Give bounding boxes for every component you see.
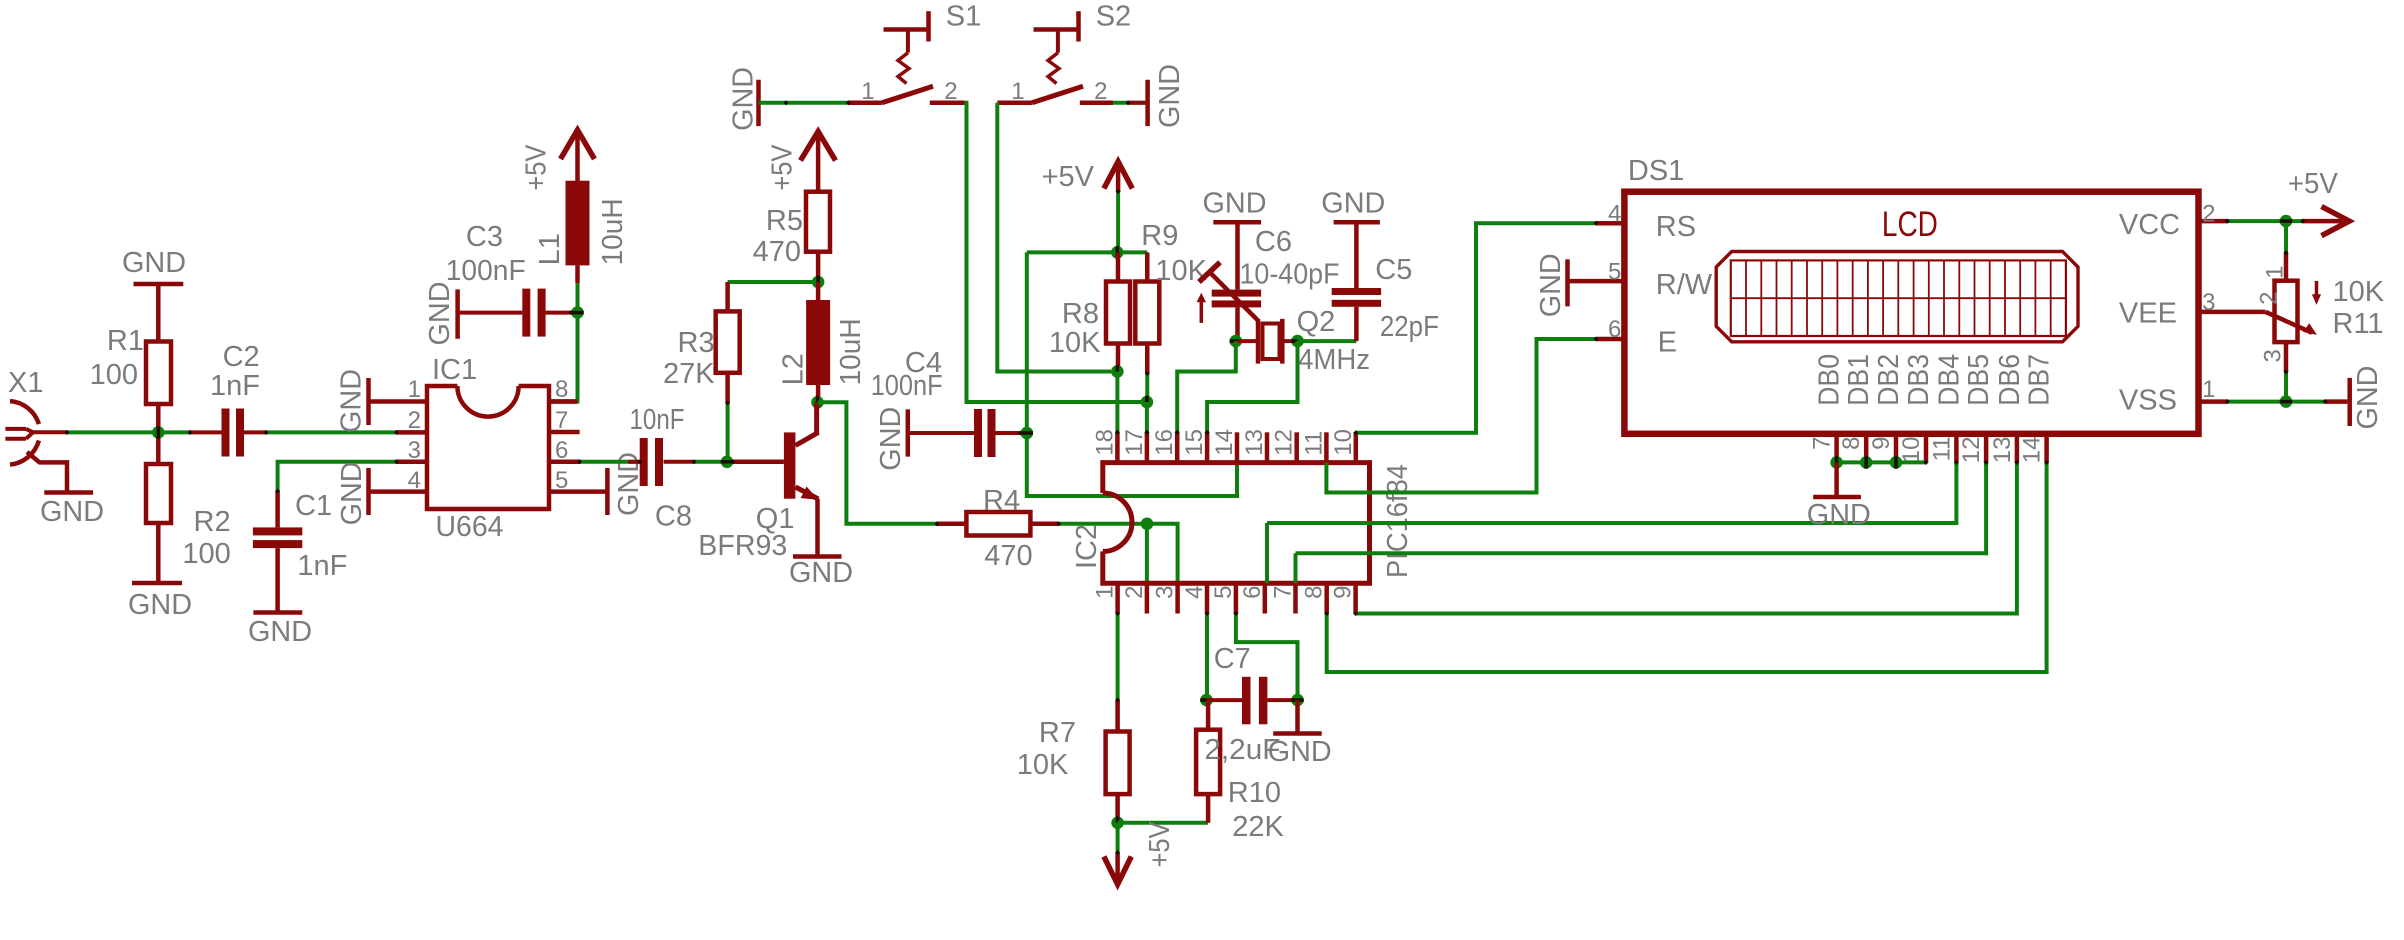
node input junction [152,404,165,464]
node R9 bottom junction [1141,374,1154,409]
node C3 L1 junction [571,306,584,319]
svg-text:GND: GND [1203,188,1267,220]
svg-text:9: 9 [1330,586,1357,599]
svg-text:11: 11 [1300,431,1327,456]
svg-text:4: 4 [1608,200,1621,227]
resistor R2 [146,464,231,581]
svg-text:16: 16 [1151,429,1178,456]
svg-text:100nF: 100nF [446,255,526,287]
wire DB6 net IC2 pin9 to LCD pin13 [1356,462,2017,613]
pin end specks [64,100,2327,855]
node LCD pin9 junction [1890,456,1903,469]
switch S2 [997,1,1131,106]
resistor R3 [663,282,740,403]
svg-text:1: 1 [408,376,421,403]
svg-text:+5V: +5V [520,144,552,191]
svg-text:7: 7 [1809,437,1836,450]
svg-text:GND: GND [1535,253,1567,317]
svg-text:1: 1 [2202,376,2215,403]
svg-text:R4: R4 [983,485,1020,517]
svg-text:R1: R1 [107,325,144,357]
svg-text:8: 8 [555,376,568,403]
IC1 pin 8 [549,376,578,403]
LCD pin 4 RS [1596,200,1696,243]
svg-text:2: 2 [1121,586,1148,599]
svg-text:GND: GND [336,369,368,433]
inductor L1 [534,181,629,283]
svg-text:GND: GND [122,247,186,279]
svg-text:470: 470 [753,236,801,268]
node crystal left junction [1230,335,1243,348]
wire input net X1 to C2 [67,430,190,434]
LCD pin 5 RW [1568,258,1713,301]
svg-text:5: 5 [1608,258,1621,285]
wire S2 pin2 to GND [1113,101,1146,105]
svg-text:C8: C8 [655,501,692,533]
IC PIC16F84 IC2 body [1071,463,1414,584]
svg-text:L1: L1 [534,233,566,265]
svg-text:C6: C6 [1255,226,1292,258]
LCD pin 2 VCC [2119,200,2228,241]
svg-text:6: 6 [1239,586,1266,599]
svg-text:1: 1 [1092,586,1119,599]
resistor R10 [1196,700,1284,843]
capacitor C5 [1332,222,1439,343]
wire +5V to R8 R9 tops [1027,192,1147,253]
svg-text:12: 12 [1271,429,1298,456]
svg-text:DB2: DB2 [1873,354,1905,406]
IC U664 IC1 body [427,354,549,543]
svg-text:GND: GND [789,557,853,589]
supply +5V at L1 [520,130,594,191]
resistor R5 [753,192,830,282]
node C7 right junction [1291,694,1304,707]
svg-text:DB7: DB7 [2024,354,2056,406]
svg-text:R3: R3 [678,327,715,359]
wire OSC2 crystal to IC2 pin15 [1207,341,1297,432]
svg-text:470: 470 [984,540,1032,572]
svg-text:GND: GND [248,616,312,648]
crystal Q2 4MHz [1238,306,1370,376]
wire OSC1 crystal to IC2 pin16 [1177,341,1236,432]
svg-text:22K: 22K [1232,811,1284,843]
svg-text:DS1: DS1 [1628,155,1684,187]
resistor R4 [937,485,1059,572]
capacitor C7 [1204,643,1297,766]
svg-text:2: 2 [2202,200,2215,227]
svg-text:10nF: 10nF [630,404,685,436]
wire IC2 pin5 to C7 right [1236,614,1298,701]
potentiometer R11 [2256,253,2385,372]
svg-text:8: 8 [1301,586,1328,599]
supply +5V at PIC [1042,161,1133,193]
IC1 pin 7 [549,407,580,434]
ground symbol at IC1 pin1 [336,369,369,433]
svg-text:C7: C7 [1214,643,1251,675]
wire S1 pin2 to R9 node [965,103,1141,402]
svg-text:S1: S1 [946,1,981,33]
resistor R9 [1135,220,1207,374]
ground symbol above R1 [122,247,186,284]
node R4 IC2 junction [1141,518,1154,531]
svg-text:10K: 10K [1049,327,1101,359]
svg-text:DB5: DB5 [1963,354,1995,406]
node LCD pin7 junction [1830,456,1843,469]
svg-text:RS: RS [1656,211,1696,243]
svg-text:GND: GND [1321,188,1385,220]
ground symbol below R2 [128,583,192,621]
wire DB4 net IC2 pin6 to LCD pin11 [1267,462,1956,583]
trimmer capacitor C6 [1197,222,1340,341]
svg-text:GND: GND [2352,366,2384,430]
capacitor C2 [190,341,266,457]
svg-text:10-40pF: 10-40pF [1240,258,1340,290]
wire C2 to IC1 pin2 [266,430,427,434]
wire RA2 net inside IC2 to pins 2 3 [1147,524,1178,583]
svg-text:17: 17 [1121,429,1148,456]
supply +5V down at R7 [1104,821,1176,884]
wire Q1 collector to R4 [818,402,938,524]
node C4 junction [1021,427,1034,440]
wire GND to S1 pin1 [759,101,849,105]
node VCC junction [2280,215,2293,228]
svg-text:R9: R9 [1141,220,1178,252]
svg-text:2: 2 [2256,292,2283,305]
svg-text:GND: GND [1268,736,1332,768]
LCD data pin labels DB0-DB7 [1814,354,2056,406]
resistor R1 [90,286,171,404]
display DS1 LCD body [1624,155,2198,434]
ground symbol below C1 [248,613,312,649]
resistor R8 [1049,252,1130,371]
svg-text:U664: U664 [436,511,504,543]
node R5 R3 junction [812,276,825,289]
svg-text:R5: R5 [766,205,803,237]
node crystal right junction [1291,335,1304,348]
svg-text:VSS: VSS [2119,385,2177,417]
node R7 bottom junction [1111,817,1124,830]
ground symbol at LCD RW [1535,253,1568,317]
svg-text:14: 14 [1211,429,1238,456]
svg-text:+5V: +5V [2288,168,2339,200]
ground symbol below C7 [1268,700,1332,768]
svg-text:GND: GND [40,496,104,528]
svg-text:L2: L2 [777,353,809,385]
svg-text:22pF: 22pF [1380,311,1439,343]
svg-text:LCD: LCD [1882,205,1938,244]
wire R4 to IC2 [1059,522,1141,526]
LCD bottom pin stubs 7-14 [1837,434,2047,463]
svg-text:13: 13 [1989,437,2016,464]
LCD pin 6 E [1596,316,1677,358]
svg-text:GND: GND [424,282,456,346]
svg-text:1: 1 [2261,265,2288,278]
ground symbol at C4 [875,407,908,471]
ground symbol at X1 [40,493,104,529]
capacitor C1 [253,490,347,611]
IC1 pin 5 [549,467,607,494]
svg-text:4: 4 [408,467,421,494]
svg-text:BFR93: BFR93 [698,530,787,562]
svg-text:DB3: DB3 [1903,354,1935,406]
svg-text:9: 9 [1868,437,1895,450]
wire LCD pins 7 8 9 10 to GND [1837,460,1926,464]
LCD pin 1 VSS [2119,376,2228,417]
wire IC1 pin3 to C1 [278,462,427,491]
svg-text:3: 3 [2202,289,2215,316]
svg-text:10K: 10K [1017,749,1069,781]
wire R7 node to R10 bottom [1118,821,1209,825]
wire R9 node to IC2 pin17 [1145,402,1149,432]
wire R8 node to IC2 pin18 [1115,372,1119,433]
svg-text:2: 2 [944,78,957,105]
svg-text:100: 100 [90,359,138,391]
svg-text:100nF: 100nF [871,370,943,402]
svg-text:8: 8 [1838,437,1865,450]
wire C8 to Q1 base [694,460,733,464]
node VSS junction [2280,395,2293,408]
svg-text:13: 13 [1241,429,1268,456]
node L2 collector junction [811,396,824,409]
svg-text:DB1: DB1 [1843,354,1875,406]
svg-text:Q2: Q2 [1297,306,1336,338]
svg-text:R/W: R/W [1656,269,1713,301]
svg-text:18: 18 [1091,429,1118,456]
IC2 top pin stubs [1117,432,1355,462]
svg-text:+5V: +5V [766,144,798,191]
wire R11 to VSS net [2227,372,2325,402]
svg-text:1: 1 [1011,78,1024,105]
svg-text:DB0: DB0 [1814,354,1846,406]
inductor L2 [777,282,867,402]
LCD bottom pin numbers [1809,437,2046,464]
svg-text:E: E [1658,327,1677,359]
IC1 pin 6 [549,437,580,464]
svg-text:GND: GND [128,589,192,621]
svg-text:X1: X1 [8,367,43,399]
wire IC2 pin1 to R7 [1116,614,1120,701]
transistor Q1 BFR93 [698,402,818,562]
svg-text:10: 10 [1330,429,1357,456]
wire crystal right to C5 [1298,339,1357,343]
resistor R7 [1017,700,1130,823]
svg-text:4: 4 [1181,586,1208,599]
capacitor C4 [871,347,1020,457]
svg-text:3: 3 [2259,349,2286,362]
ground symbol left of S1 [728,67,760,131]
svg-text:VCC: VCC [2119,209,2180,241]
svg-text:4MHz: 4MHz [1298,344,1370,376]
svg-text:DB6: DB6 [1994,354,2026,406]
IC2 bottom pin numbers [1092,586,1357,599]
svg-text:100: 100 [182,538,230,570]
svg-text:10uH: 10uH [835,318,867,385]
svg-text:2: 2 [1094,78,1107,105]
svg-text:IC2: IC2 [1071,524,1103,569]
ground symbol above C6 [1203,188,1267,223]
svg-text:1nF: 1nF [210,370,260,402]
wire +5V rail to C4 and VDD pin14 [1027,252,1237,496]
svg-text:R8: R8 [1062,298,1099,330]
wire E net IC2 pin11 to LCD pin6 [1326,339,1596,493]
ground symbol at IC1 pin4 [336,461,369,525]
wire DB5 net IC2 pin7 to LCD pin12 [1296,462,1987,583]
IC1 pin 4 [369,467,428,494]
wire IC2 pin4 to C7 R10 [1205,614,1209,701]
svg-text:11: 11 [1928,437,1955,462]
svg-text:R7: R7 [1039,717,1076,749]
ground symbol at C3 [424,282,458,346]
capacitor C8 [580,404,694,533]
svg-text:3: 3 [1152,586,1179,599]
svg-text:14: 14 [2019,437,2046,464]
svg-text:+5V: +5V [1144,821,1176,868]
svg-text:5: 5 [555,467,568,494]
svg-text:10uH: 10uH [597,198,629,265]
wire DB7 net IC2 pin8 to LCD pin14 [1327,462,2047,672]
svg-text:15: 15 [1181,429,1208,456]
ground symbol above C5 [1321,188,1385,223]
ground symbol at IC1 pin5 [607,452,645,516]
svg-text:GND: GND [1807,499,1871,531]
svg-text:IC1: IC1 [432,354,477,386]
wire LCD VCC to +5V and R11 [2227,221,2302,253]
ground symbol right of S2 [1148,64,1186,128]
svg-text:C3: C3 [466,221,503,253]
svg-text:10K: 10K [2333,276,2385,308]
node R8 bottom junction [1111,365,1124,378]
capacitor C3 [446,221,571,337]
svg-text:27K: 27K [663,358,715,390]
svg-text:7: 7 [555,407,568,434]
ground symbol below LCD pin7 [1807,462,1871,531]
node +5V R8 junction [1111,246,1124,259]
svg-text:GND: GND [1154,64,1186,128]
IC2 bottom pin stubs [1118,583,1356,613]
node C7 left junction [1200,694,1213,707]
svg-text:R10: R10 [1228,777,1281,809]
svg-text:C2: C2 [223,341,260,373]
node LCD pin8 junction [1860,456,1873,469]
supply +5V at R5 [766,132,835,192]
IC2 top pin numbers [1091,429,1356,456]
ground symbol at Q1 emitter [789,557,853,590]
svg-text:6: 6 [555,437,568,464]
svg-text:1nF: 1nF [297,550,347,582]
svg-text:+5V: +5V [1042,161,1095,193]
svg-text:C5: C5 [1375,254,1412,286]
IC1 pin 1 [369,376,428,403]
node Q1 base junction [721,456,734,469]
wire RS net IC2 pin10 to LCD pin4 [1356,223,1596,433]
svg-text:R11: R11 [2333,308,2384,340]
ground symbol at LCD VSS [2325,366,2384,430]
svg-text:10: 10 [1898,437,1925,464]
svg-text:7: 7 [1270,586,1297,599]
LCD pin 3 VEE [2119,289,2266,330]
svg-text:3: 3 [408,437,421,464]
LCD character grid [1731,260,2066,336]
svg-text:12: 12 [1958,437,1985,464]
wire S2 pin1 to R8 node [997,103,1111,372]
connector X1 [5,401,67,491]
wire R3 to base node [726,403,730,462]
svg-text:VEE: VEE [2119,298,2177,330]
svg-text:2: 2 [408,407,421,434]
wire C3 node to IC1 pin8 [549,283,578,402]
svg-text:GND: GND [875,407,907,471]
svg-text:6: 6 [1608,316,1621,343]
svg-text:DB4: DB4 [1933,354,1965,406]
svg-text:R2: R2 [194,506,231,538]
supply +5V at LCD VCC [2288,168,2349,236]
svg-text:5: 5 [1210,586,1237,599]
svg-text:C1: C1 [295,490,332,522]
LCD screen outline [1716,252,2078,342]
svg-text:S2: S2 [1096,1,1131,33]
svg-text:GND: GND [728,67,760,131]
switch S1 [848,1,981,106]
svg-text:1: 1 [861,78,874,105]
wire R5 to R3 [728,280,819,284]
svg-text:GND: GND [336,461,368,525]
